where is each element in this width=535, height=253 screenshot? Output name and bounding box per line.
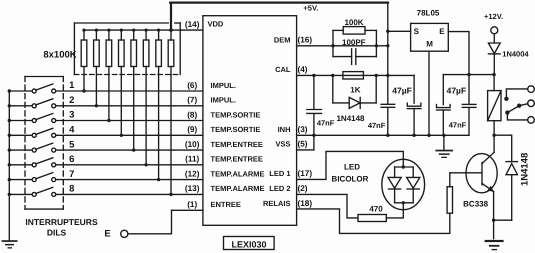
svg-text:47nF: 47nF: [317, 119, 335, 128]
LED diode right: [407, 167, 420, 203]
svg-text:(10): (10): [185, 140, 200, 149]
svg-text:4: 4: [69, 125, 75, 136]
resistor R5 of array: [131, 29, 137, 152]
svg-text:TEMP.ENTREE: TEMP.ENTREE: [211, 140, 263, 149]
node relay collector diode junction: [492, 134, 495, 137]
node 47nF INH junction: [312, 134, 315, 137]
svg-text:(7): (7): [187, 96, 197, 105]
node CAL network right junction: [375, 74, 378, 77]
svg-text:100PF: 100PF: [342, 38, 366, 47]
switch row 1 (DIL switch 1): [9, 84, 203, 93]
wire E node to relay coil: [493, 75, 495, 91]
svg-text:M: M: [426, 40, 433, 49]
resistor 100K: [333, 27, 376, 57]
capacitor 100PF: [333, 49, 376, 65]
svg-text:(14): (14): [185, 20, 200, 29]
regulator 78L05: [411, 23, 449, 51]
svg-text:VDD: VDD: [208, 20, 224, 29]
capacitor 47nF on +5V rail: [381, 104, 395, 107]
ground left bottom symbol: [2, 240, 18, 248]
svg-text:IMPUL.: IMPUL.: [211, 96, 236, 105]
resistor 470: [358, 215, 386, 222]
svg-text:8: 8: [69, 184, 74, 195]
svg-text:470: 470: [369, 205, 383, 214]
svg-text:ENTREE: ENTREE: [211, 200, 241, 209]
resistor 1K: [343, 72, 364, 79]
node DEM to +5V junction: [386, 44, 389, 47]
node DEM network right junction: [375, 44, 378, 47]
svg-text:(9): (9): [187, 125, 197, 134]
svg-text:E: E: [104, 229, 110, 240]
resistor R8 of array: [168, 28, 174, 196]
resistor R6 of array: [143, 29, 149, 167]
svg-text:TEMP.ENTREE: TEMP.ENTREE: [211, 155, 263, 164]
resistor R2 of array: [94, 29, 100, 108]
LED top rail: [395, 166, 414, 168]
node CAL 47nF junction: [312, 74, 315, 77]
wire relay coil to collector: [482, 121, 494, 164]
svg-text:IMPUL.: IMPUL.: [211, 81, 236, 90]
node CAL network left junction: [331, 74, 334, 77]
transistor BC338: [450, 154, 497, 193]
resistor 470 base (unlabelled): [447, 187, 452, 214]
switch row 4 (DIL switch 4): [9, 128, 203, 137]
node 47uF INH junction: [412, 134, 415, 137]
capacitor 47nF on E node: [462, 75, 476, 136]
svg-text:DILS: DILS: [47, 227, 67, 237]
switch row 6 (DIL switch 6): [9, 158, 203, 167]
wire 78L05 E input: [448, 32, 469, 75]
wire 78L05 S output: [388, 30, 411, 32]
svg-text:3: 3: [69, 110, 74, 121]
svg-text:+12V.: +12V.: [484, 12, 503, 21]
IC name plate LEXI030: [224, 237, 275, 250]
svg-text:(17): (17): [298, 169, 313, 178]
switch row 3 (DIL switch 3): [9, 114, 203, 123]
resistor R3 of array: [106, 29, 112, 123]
wire LED2 pin 2: [297, 194, 358, 218]
node M INH junction: [427, 134, 430, 137]
capacitor 47uF electrolytic on CAL: [407, 75, 421, 135]
relay contact lever: [505, 100, 534, 115]
svg-text:(3): (3): [298, 125, 308, 134]
svg-text:INTERRUPTEURS: INTERRUPTEURS: [25, 217, 98, 227]
wire CAL pin 4: [297, 74, 415, 76]
resistor R4 of array: [119, 29, 125, 138]
wire E node horizontal: [443, 74, 494, 76]
svg-text:47µF: 47µF: [392, 86, 412, 96]
LED diode left: [388, 167, 401, 203]
wire +5V vertical feed: [387, 3, 389, 136]
svg-text:1N4004: 1N4004: [502, 50, 529, 59]
wire E terminal to pin 1: [128, 210, 172, 234]
wire 78L05 M ground: [428, 51, 430, 135]
svg-text:2: 2: [69, 95, 74, 106]
node +5V to 78L05 S junction: [386, 30, 389, 33]
svg-text:47nF: 47nF: [449, 121, 467, 130]
diode 1N4004: [488, 34, 500, 75]
switch row 8 (DIL switch 8): [9, 187, 203, 196]
wire 470 to LED bottom: [386, 203, 403, 218]
node CAL to +5V junction: [386, 74, 389, 77]
svg-text:LED 1: LED 1: [269, 169, 290, 178]
svg-text:(1): (1): [187, 200, 197, 209]
svg-text:(6): (6): [187, 81, 197, 90]
svg-text:LEXI030: LEXI030: [231, 239, 266, 249]
svg-text:INH: INH: [278, 125, 291, 134]
node E node cross junction: [467, 73, 470, 76]
relay contact pole bottom: [507, 113, 534, 124]
wire LED1 pin 17: [297, 151, 404, 179]
node junctions on left bus: [8, 89, 11, 196]
svg-text:BICOLOR: BICOLOR: [332, 174, 369, 183]
svg-text:(8): (8): [187, 110, 197, 119]
svg-text:BC338: BC338: [463, 200, 488, 209]
svg-text:LED: LED: [344, 162, 360, 171]
ground symbol bottom right: [485, 240, 504, 250]
node 12V to E node junction: [492, 73, 495, 76]
svg-text:47nF: 47nF: [368, 121, 386, 130]
DIP switch dashed outline box: [25, 77, 63, 210]
svg-text:7: 7: [69, 169, 74, 180]
wire +5V rail top: [170, 1, 388, 3]
node +12V terminal: [484, 12, 503, 34]
wire emitter to ground: [493, 192, 495, 239]
wire VSS pin 5: [297, 149, 314, 151]
svg-text:6: 6: [69, 154, 74, 165]
svg-text:CAL: CAL: [275, 65, 291, 74]
node LED bottom junction: [402, 201, 405, 204]
svg-text:TEMP.SORTIE: TEMP.SORTIE: [211, 125, 261, 134]
svg-text:5: 5: [69, 139, 75, 150]
svg-text:TEMP.ALARME: TEMP.ALARME: [211, 169, 265, 178]
wire left ground bus vertical: [8, 91, 10, 240]
svg-text:1N4148: 1N4148: [336, 114, 365, 123]
capacitor 47uF electrolytic on E node: [437, 75, 451, 136]
svg-text:+5V.: +5V.: [303, 3, 318, 12]
wire RELAIS pin 18: [297, 209, 450, 234]
relay coil box: [488, 91, 501, 121]
svg-text:(4): (4): [298, 65, 308, 74]
LED bicolor circle: [382, 159, 425, 209]
svg-text:TEMP.SORTIE: TEMP.SORTIE: [211, 110, 261, 119]
svg-text:(12): (12): [185, 169, 200, 178]
svg-text:(18): (18): [298, 199, 313, 208]
switch row 7 (DIL switch 7): [9, 173, 203, 182]
svg-text:100K: 100K: [344, 18, 363, 27]
svg-text:8x100K: 8x100K: [43, 49, 76, 60]
wire collector junction to diode: [494, 135, 512, 161]
relay contact pole top: [504, 86, 534, 101]
resistor network box 8x100K: [74, 23, 180, 75]
node DEM network left junction: [331, 44, 334, 47]
svg-text:(13): (13): [185, 184, 200, 193]
node LED top junction: [402, 165, 405, 168]
switch row 2 (DIL switch 2): [9, 99, 203, 108]
svg-text:(11): (11): [185, 155, 199, 164]
svg-text:TEMP.ALARME: TEMP.ALARME: [211, 184, 265, 193]
diode 1N4148 flyback: [506, 162, 518, 221]
svg-text:S: S: [414, 27, 420, 36]
resistor R1 of array: [81, 29, 87, 93]
ground symbol mid right: [435, 135, 453, 158]
svg-text:(16): (16): [298, 36, 313, 45]
svg-text:VSS: VSS: [275, 140, 290, 149]
svg-text:78L05: 78L05: [417, 8, 440, 17]
svg-text:1K: 1K: [350, 86, 360, 95]
svg-text:1: 1: [69, 80, 75, 91]
switch row 5 (DIL switch 5): [9, 143, 203, 152]
node +5V INH junction: [386, 134, 389, 137]
svg-text:E: E: [439, 27, 445, 36]
svg-text:1N4148: 1N4148: [520, 153, 531, 186]
svg-text:DEM: DEM: [274, 36, 291, 45]
svg-text:RELAIS: RELAIS: [263, 199, 291, 208]
node E input terminal: [104, 229, 128, 240]
wire VDD bus / pin 14 line: [84, 29, 203, 31]
resistor R7 of array: [156, 29, 162, 182]
IC LEXI030 box: [203, 16, 297, 226]
node emitter diode junction: [492, 219, 495, 222]
wire pin 1 ENTREE: [172, 209, 203, 211]
wire diode anode to emitter: [494, 219, 512, 221]
svg-text:47µF: 47µF: [447, 86, 467, 96]
wire DEM pin 16: [297, 45, 388, 47]
svg-text:(5): (5): [298, 140, 308, 149]
svg-text:LED 2: LED 2: [269, 184, 290, 193]
LED bottom rail: [395, 202, 414, 204]
wire VDD feed vertical: [170, 3, 172, 31]
wire base resistor to base: [449, 173, 451, 187]
node 47uF ground junction: [442, 134, 445, 137]
svg-text:(2): (2): [298, 184, 308, 193]
capacitor 47nF on CAL node: [307, 75, 322, 149]
diode 1N4148 parallel with 1K: [333, 75, 376, 108]
wire INH pin 3 ground line: [297, 134, 469, 136]
